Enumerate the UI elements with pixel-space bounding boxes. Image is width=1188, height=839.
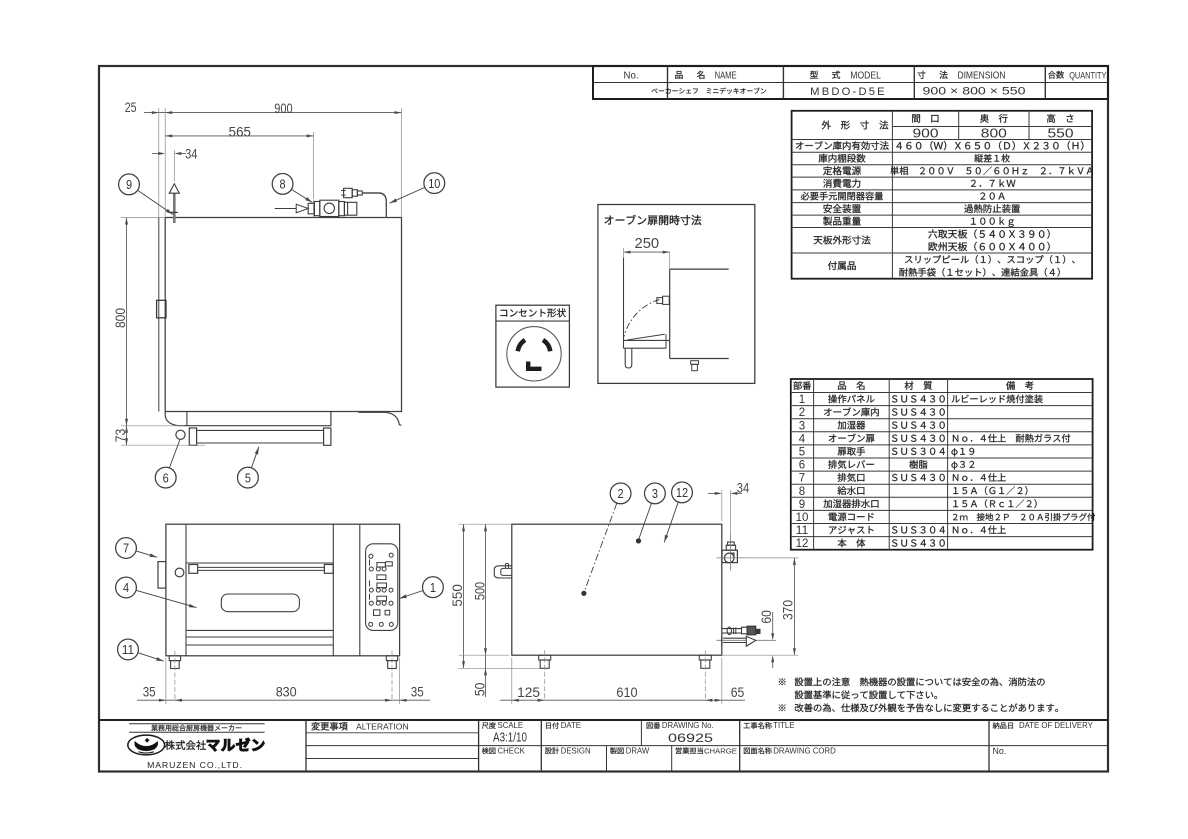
svg-text:50: 50	[473, 683, 488, 697]
svg-text:800: 800	[113, 308, 128, 328]
svg-text:12: 12	[796, 538, 809, 550]
svg-text:73: 73	[113, 429, 128, 443]
svg-text:6: 6	[799, 460, 805, 472]
svg-text:CHECK: CHECK	[498, 746, 526, 755]
svg-text:60: 60	[759, 610, 774, 624]
svg-text:800: 800	[981, 126, 1007, 140]
svg-text:35: 35	[143, 685, 156, 700]
svg-text:2: 2	[618, 486, 624, 501]
svg-text:250: 250	[635, 235, 660, 252]
svg-text:DIMENSION: DIMENSION	[957, 70, 1005, 81]
svg-text:QUANTITY: QUANTITY	[1069, 70, 1106, 80]
svg-text:11: 11	[122, 642, 134, 657]
svg-text:3: 3	[799, 420, 805, 432]
svg-text:9: 9	[126, 177, 132, 192]
svg-text:6: 6	[163, 470, 169, 485]
svg-text:34: 34	[185, 147, 198, 162]
svg-text:No.: No.	[624, 70, 639, 81]
svg-text:125: 125	[517, 685, 540, 700]
svg-text:MARUZEN CO.,LTD.: MARUZEN CO.,LTD.	[147, 760, 243, 770]
svg-text:A3:1/10: A3:1/10	[493, 730, 527, 745]
svg-text:10: 10	[428, 176, 440, 191]
svg-text:No.: No.	[993, 746, 1007, 756]
svg-text:7: 7	[799, 473, 805, 485]
svg-text:DESIGN: DESIGN	[561, 746, 591, 755]
svg-text:DRAWING No.: DRAWING No.	[662, 721, 714, 730]
svg-text:DATE OF DELIVERY: DATE OF DELIVERY	[1019, 721, 1094, 730]
svg-text:900 × 800 × 550: 900 × 800 × 550	[923, 86, 1026, 98]
svg-text:34: 34	[737, 480, 750, 495]
svg-text:550: 550	[450, 584, 465, 607]
svg-text:3: 3	[652, 486, 658, 501]
svg-text:5: 5	[799, 446, 805, 458]
svg-text:370: 370	[781, 600, 796, 620]
svg-text:4: 4	[799, 433, 806, 445]
svg-text:TITLE: TITLE	[773, 721, 794, 730]
svg-text:2: 2	[799, 407, 805, 419]
svg-text:35: 35	[411, 685, 424, 700]
svg-text:900: 900	[274, 101, 292, 116]
svg-text:10: 10	[796, 512, 809, 524]
svg-text:65: 65	[731, 685, 745, 700]
svg-text:830: 830	[276, 685, 297, 700]
svg-text:8: 8	[280, 177, 286, 192]
svg-text:7: 7	[123, 541, 129, 556]
svg-text:MODEL: MODEL	[850, 70, 881, 81]
svg-text:500: 500	[473, 582, 488, 600]
svg-text:565: 565	[229, 124, 251, 139]
svg-text:DATE: DATE	[561, 721, 581, 730]
svg-text:1: 1	[799, 394, 805, 406]
svg-text:MBDO-D5E: MBDO-D5E	[810, 86, 887, 98]
svg-text:11: 11	[796, 525, 809, 537]
svg-text:06925: 06925	[668, 731, 713, 745]
svg-text:12: 12	[676, 485, 688, 500]
svg-text:DRAW: DRAW	[626, 746, 650, 755]
svg-text:8: 8	[799, 486, 805, 498]
svg-text:CHARGE: CHARGE	[704, 746, 737, 755]
svg-text:550: 550	[1048, 126, 1074, 140]
svg-text:ALTERATION: ALTERATION	[356, 721, 409, 731]
svg-text:4: 4	[123, 580, 129, 595]
svg-text:DRAWING CORD: DRAWING CORD	[773, 746, 836, 755]
svg-text:25: 25	[125, 100, 137, 115]
svg-text:NAME: NAME	[715, 70, 737, 81]
svg-text:1: 1	[430, 580, 436, 595]
svg-text:610: 610	[616, 685, 637, 700]
svg-text:5: 5	[245, 470, 251, 485]
svg-text:9: 9	[799, 499, 805, 511]
svg-text:900: 900	[913, 126, 939, 140]
